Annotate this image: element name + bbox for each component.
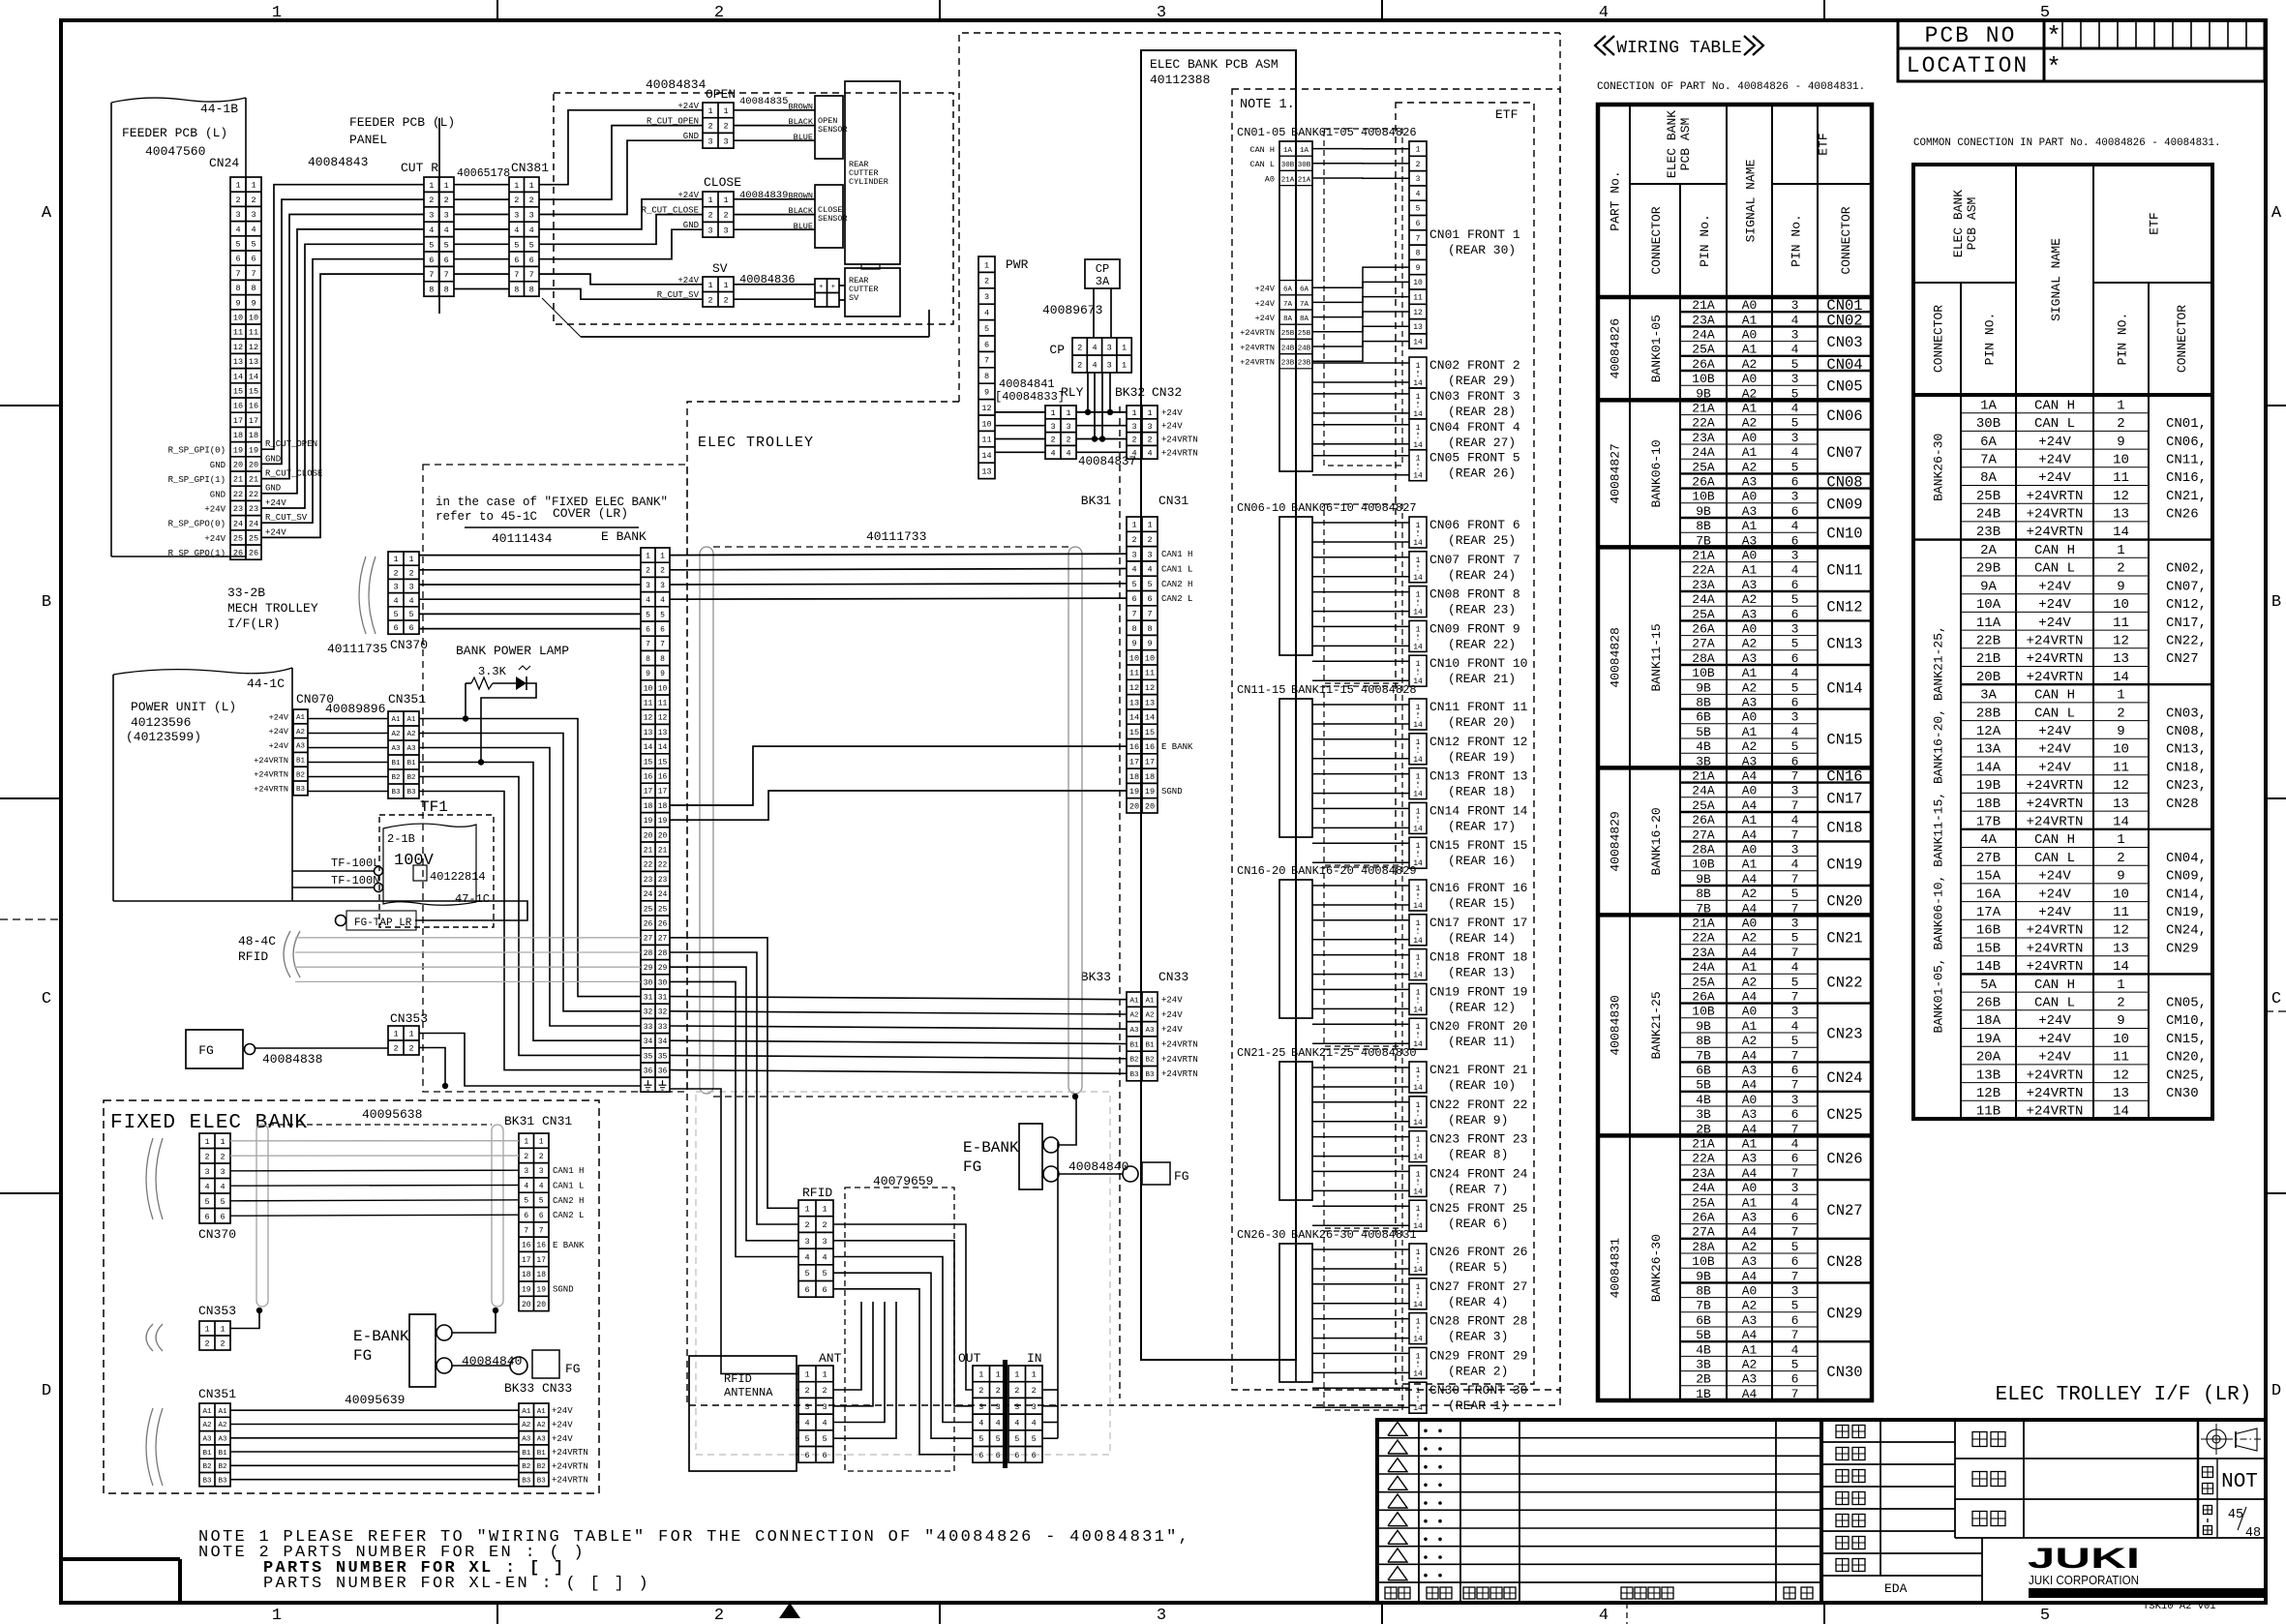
svg-text:48: 48 (2245, 1526, 2261, 1541)
svg-text:19B: 19B (1976, 778, 2000, 794)
svg-text:1A: 1A (1980, 398, 1997, 413)
svg-text:CN353: CN353 (390, 1011, 428, 1026)
svg-text:+24V: +24V (2038, 579, 2071, 594)
svg-text:35: 35 (644, 1052, 653, 1061)
svg-text:A2: A2 (1145, 1012, 1154, 1020)
svg-text:+24VRTN: +24VRTN (1161, 436, 1198, 445)
svg-text:26A: 26A (1692, 622, 1715, 637)
svg-text:CN31: CN31 (542, 1114, 572, 1128)
svg-text:6: 6 (1014, 1451, 1019, 1460)
svg-text:3: 3 (1131, 550, 1136, 559)
svg-text:(REAR 25): (REAR 25) (1448, 533, 1516, 548)
svg-text:4: 4 (1791, 519, 1799, 533)
svg-text:5: 5 (539, 1197, 544, 1206)
svg-text:25: 25 (233, 534, 243, 544)
svg-text:2: 2 (723, 295, 728, 305)
svg-text:5: 5 (393, 610, 398, 619)
svg-text:A2: A2 (1742, 416, 1758, 431)
svg-text:8: 8 (444, 286, 449, 295)
svg-text:2: 2 (524, 1153, 528, 1161)
svg-text:4: 4 (1791, 666, 1799, 680)
svg-text:12: 12 (1145, 683, 1155, 693)
svg-text:CN05: CN05 (1826, 378, 1862, 396)
svg-text:21A: 21A (1298, 176, 1311, 184)
svg-text:31: 31 (658, 994, 668, 1003)
svg-text:15: 15 (233, 387, 243, 397)
svg-text:(REAR 23): (REAR 23) (1448, 603, 1516, 617)
svg-text:2: 2 (2117, 561, 2124, 577)
svg-text:A2: A2 (1742, 739, 1758, 754)
svg-text:B3: B3 (1129, 1071, 1139, 1079)
svg-text:7B: 7B (1696, 1299, 1711, 1313)
svg-text:4: 4 (393, 596, 398, 606)
svg-text:5: 5 (1791, 637, 1799, 651)
svg-text:SIGNAL NAME: SIGNAL NAME (2049, 238, 2063, 321)
svg-text:13: 13 (644, 729, 653, 737)
svg-text:11: 11 (2113, 1050, 2129, 1066)
svg-text:10B: 10B (1692, 372, 1715, 386)
svg-text:2: 2 (723, 122, 728, 132)
svg-text:(REAR 19): (REAR 19) (1448, 750, 1516, 765)
svg-text:A1: A1 (1742, 563, 1758, 578)
svg-text:A0: A0 (1742, 328, 1758, 343)
svg-text:3: 3 (393, 583, 398, 592)
svg-text:1: 1 (1014, 1369, 1019, 1379)
svg-text:23: 23 (233, 504, 243, 514)
svg-text:21: 21 (249, 475, 258, 485)
svg-text:CN21: CN21 (1826, 930, 1862, 947)
svg-text:ELEC BANK: ELEC BANK (1665, 110, 1679, 178)
svg-text:6: 6 (408, 623, 413, 633)
svg-text:4: 4 (660, 596, 665, 605)
svg-text:PIN NO.: PIN NO. (2116, 313, 2130, 366)
svg-text:2: 2 (714, 1607, 724, 1624)
svg-text:ANTENNA: ANTENNA (724, 1386, 773, 1399)
svg-text:+24V: +24V (2038, 869, 2071, 885)
svg-text:A1: A1 (391, 716, 401, 724)
svg-text:+24VRTN: +24VRTN (1240, 328, 1275, 338)
svg-text:CN03 FRONT 3: CN03 FRONT 3 (1429, 389, 1520, 404)
svg-text:B3: B3 (406, 789, 416, 797)
svg-text:7A: 7A (1300, 301, 1309, 309)
svg-text:1: 1 (978, 1369, 983, 1379)
svg-text:12: 12 (658, 714, 668, 723)
svg-text:8: 8 (660, 655, 665, 664)
svg-text:5: 5 (1791, 931, 1799, 946)
svg-text:+24VRTN: +24VRTN (2027, 778, 2084, 794)
svg-text:COVER (LR): COVER (LR) (553, 506, 628, 521)
svg-text:8B: 8B (1696, 696, 1711, 710)
svg-text:A2: A2 (1742, 357, 1758, 372)
svg-text:CN04,: CN04, (2166, 851, 2207, 866)
svg-text:CAN H: CAN H (2034, 832, 2075, 848)
svg-text:CN13,: CN13, (2166, 742, 2207, 758)
svg-text:14: 14 (1413, 338, 1423, 346)
svg-text:(REAR 21): (REAR 21) (1448, 672, 1516, 686)
svg-text:13A: 13A (1976, 742, 2001, 758)
svg-text:MECH TROLLEY: MECH TROLLEY (227, 601, 318, 616)
svg-text:3B: 3B (1696, 1107, 1711, 1122)
svg-text:6: 6 (514, 256, 519, 265)
svg-text:2: 2 (707, 122, 712, 132)
svg-text:19A: 19A (1976, 1032, 2001, 1047)
svg-text:40084834: 40084834 (646, 77, 707, 92)
svg-text:30B: 30B (1976, 416, 2000, 432)
svg-text:A2: A2 (1742, 592, 1758, 607)
svg-text:20: 20 (644, 831, 653, 840)
svg-text:C: C (2271, 990, 2281, 1008)
svg-text:CN01 FRONT 1: CN01 FRONT 1 (1429, 227, 1520, 242)
svg-text:A4: A4 (1742, 1328, 1758, 1342)
svg-text:1: 1 (1416, 954, 1421, 963)
svg-text:(REAR 13): (REAR 13) (1448, 966, 1516, 980)
svg-text:A1: A1 (537, 1408, 547, 1416)
svg-text:A0: A0 (1742, 622, 1758, 637)
svg-text:A2: A2 (1742, 887, 1758, 901)
svg-text:3: 3 (204, 1167, 209, 1177)
svg-text:A2: A2 (406, 731, 415, 738)
svg-text:22: 22 (658, 861, 668, 870)
svg-text:14: 14 (1413, 1188, 1423, 1196)
svg-text:4B: 4B (1696, 1093, 1711, 1107)
svg-text:2: 2 (2117, 706, 2124, 721)
svg-text:B1: B1 (537, 1450, 547, 1458)
svg-text:13: 13 (2113, 797, 2129, 812)
svg-text:B2: B2 (537, 1463, 546, 1471)
svg-text:A3: A3 (1742, 651, 1758, 666)
svg-text:A4: A4 (1742, 1048, 1758, 1063)
svg-text:A3: A3 (1742, 475, 1758, 490)
svg-text:3: 3 (1791, 490, 1799, 504)
svg-text:CN22,: CN22, (2166, 633, 2207, 648)
svg-text:16: 16 (249, 402, 258, 411)
svg-text:I/F(LR): I/F(LR) (227, 617, 281, 631)
svg-text:10B: 10B (1692, 1005, 1715, 1019)
svg-text:3: 3 (1147, 550, 1152, 559)
svg-text:BANK01-05: BANK01-05 (1649, 315, 1664, 382)
svg-text:1: 1 (984, 260, 989, 270)
svg-text:4: 4 (1791, 1019, 1799, 1034)
svg-text:+24VRTN: +24VRTN (2027, 507, 2084, 523)
svg-text:CAN2 H: CAN2 H (1161, 580, 1192, 589)
svg-text:8: 8 (1147, 624, 1152, 634)
svg-text:1: 1 (1416, 1387, 1421, 1396)
svg-text:A3: A3 (218, 1436, 227, 1444)
svg-text:40079659: 40079659 (873, 1174, 933, 1188)
svg-text:14: 14 (1413, 972, 1423, 980)
svg-text:+24VRTN: +24VRTN (2027, 1104, 2084, 1120)
svg-text:A1: A1 (406, 716, 416, 724)
svg-text:CN33: CN33 (542, 1381, 572, 1396)
svg-text:1: 1 (1122, 344, 1127, 353)
svg-text:3: 3 (529, 211, 534, 221)
svg-text:10: 10 (2113, 887, 2129, 902)
svg-text:5: 5 (1791, 1358, 1799, 1372)
svg-text:6: 6 (1791, 1254, 1799, 1269)
svg-text:A2: A2 (1742, 1299, 1758, 1313)
svg-text:+24V: +24V (1161, 422, 1183, 432)
svg-text:2: 2 (408, 1044, 413, 1054)
svg-text:21A: 21A (1692, 769, 1715, 784)
svg-text:+24VRTN: +24VRTN (552, 1461, 588, 1471)
svg-text:35: 35 (658, 1052, 668, 1061)
svg-text:A0: A0 (1742, 1005, 1758, 1019)
svg-text:(REAR 18): (REAR 18) (1448, 785, 1516, 799)
svg-text:13: 13 (2113, 1086, 2129, 1101)
svg-text:20: 20 (1129, 801, 1139, 811)
svg-text:1: 1 (804, 1204, 809, 1214)
svg-text:RLY: RLY (1061, 385, 1084, 400)
svg-text:E BANK: E BANK (601, 529, 647, 544)
svg-text:CN31: CN31 (1158, 494, 1188, 508)
svg-text:47-1C: 47-1C (455, 892, 490, 906)
svg-text:5: 5 (984, 324, 989, 334)
svg-text:1: 1 (251, 181, 256, 191)
svg-text:14: 14 (1413, 721, 1423, 730)
svg-text:17: 17 (522, 1256, 531, 1265)
svg-text:10: 10 (644, 684, 653, 693)
svg-text:8B: 8B (1696, 887, 1711, 901)
svg-text:6: 6 (1791, 578, 1799, 592)
svg-text:5: 5 (514, 240, 519, 250)
svg-text:26: 26 (249, 549, 258, 558)
svg-text:14: 14 (658, 743, 668, 752)
svg-text:A0: A0 (1742, 372, 1758, 386)
svg-text:CN13: CN13 (1826, 636, 1862, 653)
svg-text:34: 34 (658, 1038, 668, 1046)
svg-text:+24V: +24V (2038, 905, 2071, 920)
svg-text:(REAR 9): (REAR 9) (1448, 1113, 1508, 1128)
svg-text:1: 1 (272, 1607, 282, 1624)
svg-text:BK31: BK31 (1081, 494, 1111, 508)
svg-text:2: 2 (707, 295, 712, 305)
svg-text:5: 5 (1791, 1299, 1799, 1313)
svg-text:PCB ASM: PCB ASM (1678, 118, 1693, 171)
svg-text:CN26 FRONT 26: CN26 FRONT 26 (1429, 1245, 1527, 1259)
svg-text:SENSOR: SENSOR (818, 125, 848, 135)
svg-text:3: 3 (1107, 344, 1112, 353)
svg-text:BANK11-15: BANK11-15 (1649, 623, 1664, 691)
svg-text:1: 1 (1032, 1369, 1037, 1379)
svg-text:4: 4 (539, 1182, 544, 1190)
svg-text:FG: FG (1174, 1169, 1189, 1184)
svg-text:13: 13 (249, 357, 258, 367)
svg-text:11: 11 (2113, 905, 2129, 920)
svg-text:2: 2 (1050, 436, 1055, 445)
svg-text:3: 3 (1791, 1181, 1799, 1195)
svg-text:15: 15 (1145, 728, 1155, 737)
svg-text:CN12 FRONT 12: CN12 FRONT 12 (1429, 735, 1527, 749)
svg-text:TF-100N: TF-100N (331, 874, 379, 887)
svg-text:48-4C: 48-4C (238, 934, 276, 948)
svg-text:12: 12 (2113, 634, 2129, 649)
svg-text:14: 14 (1413, 441, 1423, 450)
svg-text:R_CUT_CLOSE: R_CUT_CLOSE (265, 469, 322, 479)
svg-text:CN27: CN27 (2166, 651, 2199, 667)
svg-text:2: 2 (978, 1386, 983, 1396)
svg-text:RFID: RFID (802, 1186, 832, 1200)
svg-text:(REAR 2): (REAR 2) (1448, 1364, 1508, 1378)
svg-text:7: 7 (1791, 1166, 1799, 1181)
svg-text:28: 28 (658, 949, 668, 958)
svg-text:B1: B1 (1129, 1041, 1139, 1049)
svg-text:A2: A2 (391, 731, 400, 738)
svg-text:1: 1 (220, 1137, 225, 1147)
svg-text:3: 3 (1791, 298, 1799, 313)
svg-text:1: 1 (1122, 361, 1127, 371)
svg-text:A4: A4 (1742, 1387, 1758, 1401)
svg-text:7: 7 (1791, 1225, 1799, 1240)
svg-text:22A: 22A (1692, 1152, 1715, 1166)
svg-text:4: 4 (220, 1182, 225, 1191)
svg-text:4: 4 (984, 309, 989, 318)
svg-text:5: 5 (1791, 680, 1799, 695)
svg-text:16: 16 (233, 402, 243, 411)
svg-text:GND: GND (265, 484, 281, 494)
svg-text:CN30: CN30 (1826, 1364, 1862, 1381)
svg-text:+24VRTN: +24VRTN (1161, 1040, 1198, 1050)
svg-text:A0: A0 (1742, 1284, 1758, 1299)
svg-text:CN24,: CN24, (2166, 923, 2207, 939)
svg-text:+24V: +24V (1255, 285, 1276, 294)
svg-text:8: 8 (984, 372, 989, 381)
svg-text:1: 1 (822, 1204, 827, 1214)
svg-text:1: 1 (822, 1369, 827, 1379)
svg-text:A3: A3 (1742, 1254, 1758, 1269)
svg-text:5: 5 (1791, 416, 1799, 431)
svg-text:+24V: +24V (265, 498, 286, 508)
svg-text:21: 21 (658, 847, 668, 856)
svg-text:+24V: +24V (2038, 760, 2071, 775)
svg-text:1: 1 (1416, 738, 1421, 747)
svg-text:9: 9 (235, 298, 240, 308)
svg-text:4A: 4A (1980, 832, 1997, 848)
svg-text:40065178: 40065178 (457, 167, 510, 180)
svg-text:14: 14 (644, 743, 653, 752)
svg-text:CN17: CN17 (1826, 790, 1862, 807)
svg-text:CN17 FRONT 17: CN17 FRONT 17 (1429, 916, 1527, 930)
svg-text:20: 20 (233, 461, 243, 470)
svg-text:1: 1 (220, 1325, 225, 1335)
svg-text:CN29: CN29 (1826, 1305, 1862, 1322)
svg-text:BANK16-20: BANK16-20 (1649, 807, 1664, 875)
svg-text:+24VRTN: +24VRTN (2027, 651, 2084, 667)
svg-text:26A: 26A (1692, 475, 1715, 490)
svg-text:3: 3 (804, 1402, 809, 1412)
svg-text:6: 6 (1791, 696, 1799, 710)
svg-text:B3: B3 (202, 1477, 212, 1485)
svg-text:14: 14 (1413, 609, 1423, 617)
svg-text:18: 18 (522, 1271, 531, 1279)
svg-text:8: 8 (1416, 250, 1421, 258)
svg-text:A1: A1 (1742, 1342, 1758, 1357)
svg-text:17: 17 (1145, 758, 1155, 767)
svg-text:12A: 12A (1976, 724, 2001, 739)
svg-text:A1: A1 (296, 714, 306, 722)
svg-text:1: 1 (646, 553, 650, 561)
svg-text:22: 22 (233, 490, 243, 499)
svg-text:A1: A1 (1742, 666, 1758, 680)
svg-text:10: 10 (658, 684, 668, 693)
svg-text:5: 5 (529, 240, 534, 250)
svg-text:2: 2 (1077, 344, 1082, 353)
svg-text:CN370: CN370 (390, 638, 428, 652)
svg-text:CN07 FRONT 7: CN07 FRONT 7 (1429, 553, 1520, 567)
svg-text:CN21 FRONT 21: CN21 FRONT 21 (1429, 1063, 1528, 1077)
svg-text:B3: B3 (391, 789, 401, 797)
svg-text:CN33: CN33 (1158, 970, 1188, 984)
svg-text:20: 20 (522, 1301, 531, 1309)
svg-text:3: 3 (660, 582, 665, 590)
svg-text:+24VRTN: +24VRTN (1161, 1069, 1198, 1079)
svg-text:14: 14 (233, 372, 243, 381)
svg-text:40084837: 40084837 (1078, 455, 1136, 468)
svg-text:+24VRTN: +24VRTN (1240, 343, 1275, 352)
svg-text:3: 3 (996, 1402, 1001, 1412)
svg-text:16A: 16A (1976, 887, 2001, 902)
svg-text:A0: A0 (1265, 174, 1275, 184)
svg-text:R_SP_GPO(0): R_SP_GPO(0) (168, 520, 226, 529)
svg-text:(REAR 20): (REAR 20) (1448, 715, 1516, 730)
svg-text:(REAR 12): (REAR 12) (1448, 1000, 1516, 1014)
svg-text:1: 1 (1416, 773, 1421, 782)
svg-text:4: 4 (1092, 344, 1097, 353)
svg-text:+24V: +24V (1255, 299, 1276, 309)
svg-text:40084830: 40084830 (1609, 995, 1623, 1055)
svg-text:+24VRTN: +24VRTN (254, 756, 288, 766)
svg-text:40122814: 40122814 (430, 870, 486, 884)
svg-text:5: 5 (2040, 1607, 2050, 1624)
svg-text:+24VRTN: +24VRTN (552, 1448, 588, 1458)
svg-text:4: 4 (1147, 565, 1152, 575)
svg-text:40084843: 40084843 (308, 155, 368, 169)
svg-text:WIRING TABLE: WIRING TABLE (1616, 39, 1742, 58)
svg-text:CONNECTOR: CONNECTOR (1649, 206, 1664, 274)
svg-text:10B: 10B (1692, 857, 1715, 872)
svg-text:15: 15 (658, 758, 668, 767)
svg-text:CN11-15: CN11-15 (1237, 683, 1285, 697)
svg-text:5: 5 (1147, 580, 1152, 589)
svg-text:1B: 1B (1696, 1387, 1711, 1401)
svg-text:+24V: +24V (1161, 996, 1183, 1006)
svg-text:A4: A4 (1742, 1269, 1758, 1283)
svg-text:7: 7 (539, 1226, 544, 1235)
svg-text:CN07,: CN07, (2166, 579, 2207, 594)
svg-text:CN28 FRONT 28: CN28 FRONT 28 (1429, 1314, 1527, 1329)
svg-text:23A: 23A (1692, 578, 1715, 592)
svg-text:ELEC TROLLEY I/F (LR): ELEC TROLLEY I/F (LR) (1996, 1384, 2252, 1406)
svg-text:25A: 25A (1692, 1195, 1715, 1210)
svg-text:A1: A1 (522, 1408, 531, 1416)
svg-text:5: 5 (804, 1434, 809, 1444)
svg-text:TF-100L: TF-100L (331, 857, 379, 870)
svg-text:CN21-25: CN21-25 (1237, 1046, 1285, 1060)
svg-text:24B: 24B (1976, 507, 2000, 523)
svg-text:8A: 8A (1283, 316, 1293, 323)
svg-text:6: 6 (1131, 594, 1136, 604)
svg-text:18: 18 (644, 802, 653, 811)
svg-text:4: 4 (1014, 1419, 1019, 1429)
svg-text:1: 1 (1416, 146, 1421, 155)
svg-text:A4: A4 (1742, 769, 1758, 784)
svg-text:5: 5 (646, 611, 650, 619)
svg-text:A3: A3 (1129, 1027, 1139, 1035)
svg-text:CN370: CN370 (198, 1227, 236, 1242)
svg-text:A1: A1 (1742, 725, 1758, 739)
svg-text:A1: A1 (1742, 1137, 1758, 1152)
svg-text:4: 4 (822, 1253, 827, 1263)
svg-text:2: 2 (444, 195, 449, 205)
